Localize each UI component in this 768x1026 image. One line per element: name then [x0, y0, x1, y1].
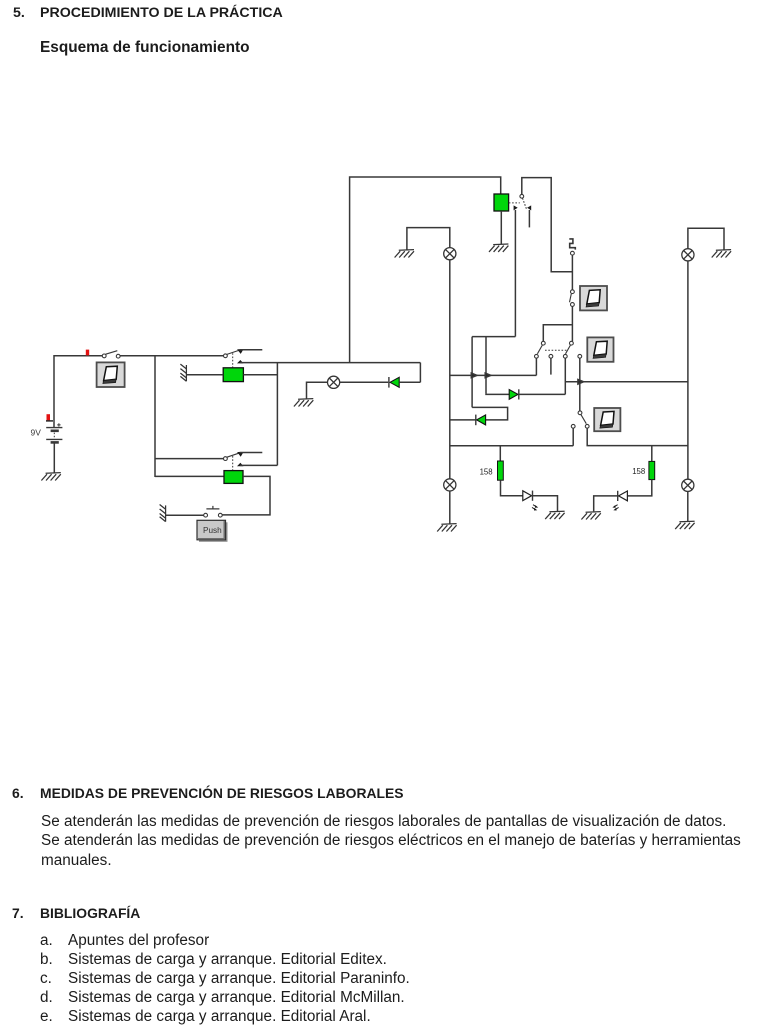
junction arrow 2: [485, 373, 491, 378]
lamp L4: [682, 249, 694, 261]
ganged switch S2 lever B: [566, 345, 571, 354]
relay RL1 bottom contact arrow: [237, 360, 243, 363]
wire left rail down from bus: [154, 356, 156, 477]
wire D3 to ground: [533, 496, 558, 511]
wire push button to ground: [166, 514, 204, 516]
relay RL3 lever dashed: [523, 198, 527, 209]
ground battery: [41, 473, 60, 481]
pulse generator terminal: [571, 251, 575, 255]
relay RL1 lever: [227, 351, 239, 355]
mid bus: [450, 374, 536, 376]
wire bus S0 to relay RL1 pivot: [120, 355, 224, 357]
diode D0: [389, 377, 421, 388]
rocker icon S0: [97, 362, 125, 387]
push button icon: [197, 520, 228, 542]
switch S1 contacts: [571, 290, 575, 307]
wire battery bottom to ground: [53, 443, 55, 473]
ground at lamp L5: [675, 521, 694, 529]
relay RL3 left contact arrow: [514, 205, 518, 210]
wire S1 to ganged switch pivot B: [571, 307, 573, 342]
resistor R2 stub: [651, 446, 653, 462]
ground rotated at RL1 coil: [180, 364, 186, 381]
rocker icon S3: [594, 408, 620, 431]
relay RL3 pivot contact: [520, 194, 524, 198]
wire R2 to diode D4: [627, 480, 651, 496]
relay RL2 top contact arrow: [237, 452, 243, 457]
svg-text:9V: 9V: [31, 428, 42, 438]
paragraph: [41, 813, 726, 831]
junction arrow 1: [471, 373, 477, 378]
relay RL1 pivot contact: [224, 354, 228, 358]
relay RL2 bottom contact wire: [240, 464, 277, 466]
diode D1 line: [486, 393, 565, 396]
wire rail to RL2 pivot: [155, 458, 224, 460]
ground at D3: [545, 511, 564, 519]
push button PB1 contacts: [204, 513, 223, 517]
wire contact2 stub: [550, 358, 552, 374]
wire lamp L5 to ground: [687, 491, 689, 521]
resistor R1: [498, 461, 504, 480]
wire D4 to ground: [594, 496, 619, 512]
section 7 heading: [12, 905, 24, 921]
wire RL1 contact corner down to lamp line: [419, 363, 421, 383]
diode D3: [523, 491, 533, 501]
svg-text:Push: Push: [203, 526, 222, 535]
relay RL1 top contact stub: [240, 349, 263, 351]
ground at lamp L4: [712, 250, 731, 258]
relay RL3 coil link dashed: [509, 202, 520, 204]
relay RL2 lever: [227, 453, 239, 457]
ground at lamp L1: [294, 399, 313, 407]
relay RL1 bottom contact wire to corner: [240, 362, 420, 364]
relay coil RL3: [494, 194, 509, 211]
resistor R2: [649, 461, 655, 479]
section 5 heading: [13, 5, 25, 21]
wire rail corner to coil RL2: [155, 475, 224, 477]
ground at lamp L3: [437, 524, 456, 532]
left lower bus: [450, 445, 573, 447]
section 6 heading: [12, 785, 24, 801]
subheading: [40, 39, 250, 57]
wire ground to coil RL1: [187, 374, 223, 376]
wire coil RL3 to ground: [500, 211, 502, 244]
relay RL2 coil link dashed: [232, 456, 234, 470]
switch S3 lever: [581, 415, 586, 424]
ground under RL3: [489, 244, 508, 252]
svg-text:158: 158: [632, 467, 645, 476]
wire top loop: [350, 177, 501, 363]
lamp L5: [682, 479, 694, 491]
rocker icon S1: [580, 286, 607, 310]
resistor R1 stub: [499, 446, 501, 461]
svg-text:158: 158: [480, 467, 493, 476]
ganged switch S2 lever A: [537, 345, 542, 354]
wire lamp L2 top to ground: [407, 228, 450, 250]
relay RL3 right contact stub: [528, 210, 530, 227]
wire center column: [449, 260, 451, 480]
relay RL2 bottom contact arrow: [237, 463, 243, 466]
battery red state indicator: [46, 414, 53, 421]
pulse generator glyph: [569, 239, 575, 250]
diode D2 line: [450, 407, 507, 420]
wire coil RL2 to push button: [222, 476, 270, 515]
wire contact3 down to diode line: [564, 358, 566, 394]
wire S3 right contact to right bus: [587, 428, 688, 445]
wire battery top to bus: [54, 356, 102, 427]
rocker icon S2: [587, 337, 613, 361]
wire contact1 down to mid bus: [535, 358, 537, 375]
lamp L2: [444, 248, 456, 260]
diode D1: [509, 389, 519, 399]
wire lamp L4 top to ground: [688, 228, 724, 249]
wire S3 left contact to left bus: [572, 428, 574, 446]
diode D4: [618, 491, 628, 501]
ganged switch S2 link dashed: [545, 349, 568, 351]
diode D2: [476, 415, 486, 426]
wire RL3 common up and over: [522, 178, 573, 272]
switch S3 common contact: [578, 411, 582, 415]
relay coil RL1: [223, 368, 243, 382]
wire lamp L3 to ground: [449, 491, 451, 524]
push button PB1 actuator: [206, 506, 219, 509]
switch S0 contacts: [102, 354, 120, 358]
relay RL2 pivot contact: [224, 457, 228, 461]
list: [40, 932, 53, 950]
wire pulse generator to switch S1: [571, 255, 573, 290]
node line under RL3: [472, 337, 515, 408]
lamp L3: [444, 479, 456, 491]
battery 9V: [46, 423, 62, 442]
ganged switch S2 contacts: [535, 354, 582, 358]
lamp L1: [328, 376, 340, 388]
diode D4 arrow mark: [612, 505, 618, 511]
relay coil RL2: [224, 471, 243, 484]
wire lamp L1 left to ground: [307, 382, 328, 398]
right big bus: [565, 381, 688, 383]
wire pivot bridge: [543, 325, 572, 342]
relay RL2 top contact stub: [240, 452, 263, 454]
junction arrow 3: [578, 380, 584, 385]
red current indicator on bus: [86, 350, 89, 356]
wire coil RL1 to down rail: [243, 363, 277, 466]
diode D3 arrow mark: [532, 505, 538, 511]
switch S3 contacts: [571, 424, 589, 428]
wire right column: [687, 261, 689, 480]
ground at D4: [581, 512, 600, 520]
relay RL3 right contact arrow: [527, 205, 531, 210]
switch S0 lever: [106, 351, 118, 355]
wire R1 to diode D3: [501, 480, 523, 496]
relay RL1 top contact arrow: [237, 349, 243, 354]
ground at lamp L2: [395, 250, 414, 258]
ground rotated at push button: [160, 505, 166, 522]
SCHEMATIC SVG: [0, 0, 768, 560]
wire contact4 down to switch S3: [579, 358, 581, 411]
ganged switch S2 pivots: [541, 341, 573, 345]
relay RL3 left contact wire down: [514, 210, 516, 337]
wire lamp L1 to diode D0: [339, 381, 388, 383]
switch S1 lever: [570, 294, 572, 302]
relay RL1 coil link dashed: [232, 353, 234, 367]
